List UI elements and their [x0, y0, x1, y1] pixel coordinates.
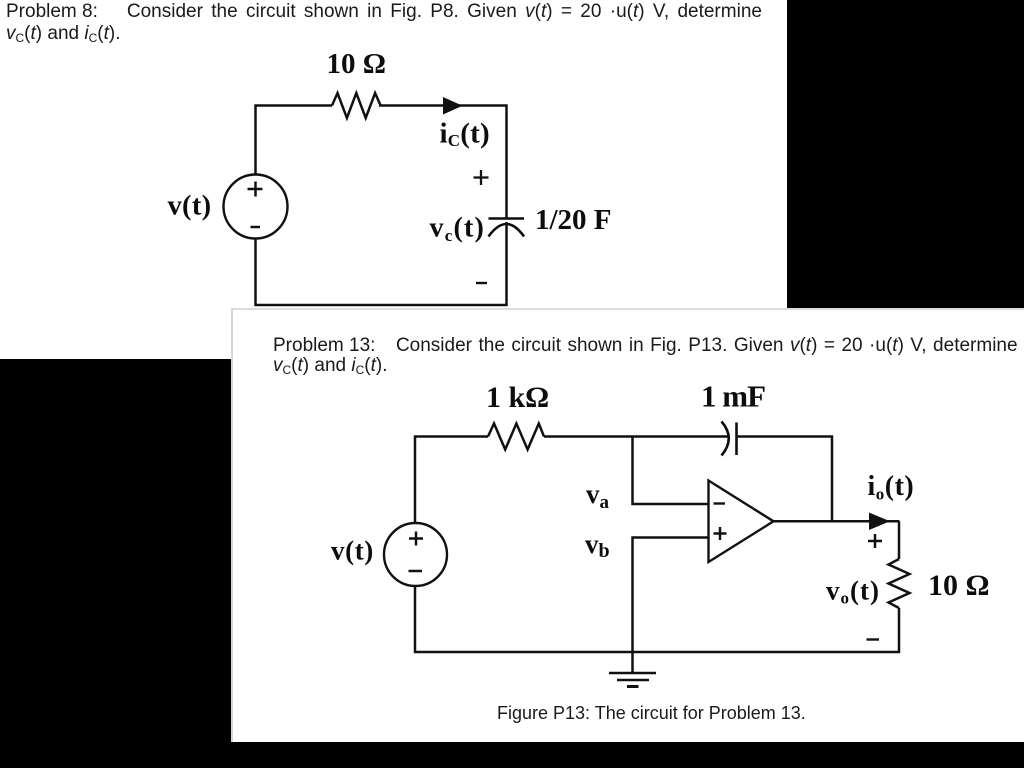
voltage source v(t) circle	[224, 175, 288, 239]
problem 13 statement line 1	[273, 335, 1018, 357]
svg-text:vb: vb	[585, 529, 610, 562]
wire: node A vertical (top wire to va)	[631, 436, 634, 506]
wire: top left segment	[414, 435, 488, 438]
label vc(t)	[430, 213, 486, 246]
op-amp U1 triangle	[709, 481, 774, 563]
svg-text:10 Ω: 10 Ω	[928, 569, 990, 602]
capacitor 1 mF curved plate	[722, 422, 729, 456]
panel: Problem 8 scanned page	[0, 0, 787, 359]
wire: va horizontal to op-amp inverting input	[632, 503, 709, 506]
svg-text:1/20 F: 1/20 F	[535, 204, 612, 236]
arrowhead current direction io	[869, 513, 890, 531]
label - (capacitor polarity)	[476, 282, 487, 284]
capacitor 1/20 F curved plate	[489, 224, 525, 237]
ground middle bar	[617, 679, 649, 682]
label ic(t)	[440, 118, 490, 151]
figure caption	[497, 703, 806, 724]
label 1 mF	[701, 379, 765, 414]
source - sign	[409, 570, 423, 573]
ground bottom bar	[627, 685, 639, 688]
svg-text:iC(t): iC(t)	[440, 118, 490, 151]
label vo(t)	[826, 576, 880, 608]
label v(t)	[168, 191, 212, 222]
wire: left vertical lower	[414, 585, 417, 653]
resistor 1 kohm	[488, 424, 544, 450]
op-amp non-inverting input + sign	[714, 527, 727, 540]
wire: vb vertical down to ground	[631, 537, 634, 674]
wire: right vertical lower	[505, 222, 508, 306]
label 1/20 F	[535, 204, 612, 236]
svg-text:v(t): v(t)	[168, 191, 212, 222]
op-amp inverting input - sign	[714, 502, 726, 504]
wire: top right segment	[379, 104, 508, 107]
svg-text:vc(t): vc(t)	[430, 213, 486, 246]
svg-text:v(t): v(t)	[331, 536, 374, 566]
arrowhead current direction ic	[443, 97, 463, 115]
label 10 ohm	[928, 569, 990, 602]
voltage source v(t) circle	[384, 523, 447, 586]
capacitor 1 mF straight plate	[735, 423, 738, 456]
wire: left vertical upper	[254, 105, 257, 176]
wire: right vertical upper	[505, 105, 508, 219]
wire: feedback vertical	[831, 436, 834, 522]
source - sign	[251, 226, 261, 229]
wire: vb horizontal to op-amp non-inverting input	[632, 536, 709, 539]
ground top bar	[609, 672, 656, 675]
label 10 ohm	[327, 48, 386, 80]
label vb	[585, 529, 610, 562]
source + sign	[248, 182, 263, 197]
wire: bottom	[255, 304, 508, 307]
wire: right vertical upper	[898, 521, 901, 559]
resistor 10 ohm vertical	[889, 559, 910, 608]
wire: right vertical lower	[898, 608, 901, 653]
wire: top middle segment	[544, 435, 729, 438]
problem 13 statement line 2	[273, 355, 388, 377]
capacitor 1/20 F top plate	[489, 217, 525, 220]
svg-text:1 kΩ: 1 kΩ	[486, 381, 549, 414]
label v(t)	[331, 536, 374, 566]
label + (output polarity)	[868, 534, 882, 548]
label va	[586, 479, 610, 513]
panel: Problem 13 scanned page (overlapping)	[231, 308, 1024, 742]
wire: op-amp output	[774, 520, 900, 523]
label - (output polarity)	[867, 638, 880, 640]
label + (capacitor polarity)	[474, 170, 489, 185]
wire: top left segment	[255, 104, 333, 107]
svg-text:1 mF: 1 mF	[701, 379, 765, 414]
problem 8 statement line 1	[6, 1, 762, 23]
label io(t)	[868, 471, 915, 504]
svg-text:va: va	[586, 479, 610, 513]
wire: bottom	[414, 651, 900, 654]
source + sign	[409, 532, 423, 546]
svg-text:io(t): io(t)	[868, 471, 915, 504]
label 1 kohm	[486, 381, 549, 414]
resistor 10 ohm	[332, 93, 381, 118]
wire: left vertical lower	[254, 238, 257, 306]
problem 8 statement line 2	[6, 23, 121, 45]
wire: left vertical upper	[414, 436, 417, 525]
svg-text:10 Ω: 10 Ω	[327, 48, 386, 80]
wire: top right segment	[737, 435, 834, 438]
svg-text:vo(t): vo(t)	[826, 576, 880, 608]
